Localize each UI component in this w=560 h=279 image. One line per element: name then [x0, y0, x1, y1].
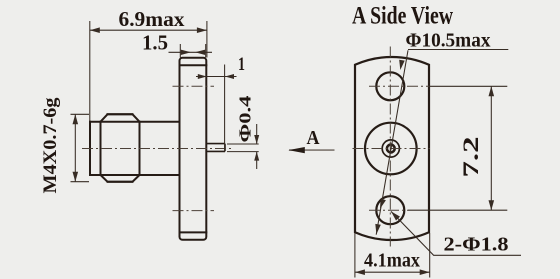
- centerline of connector axis: [82, 86, 232, 210]
- svg-text:4.1max: 4.1max: [364, 250, 420, 272]
- svg-text:A: A: [307, 127, 320, 149]
- M4 thread dimension line: [74, 114, 76, 181]
- svg-text:A Side View: A Side View: [352, 3, 453, 30]
- 6.9max arrows: [90, 27, 100, 33]
- top mounting hole: [376, 72, 404, 100]
- svg-text:Φ10.5max: Φ10.5max: [406, 30, 491, 52]
- mounting hole centerlines crossing side-view flange: [173, 85, 215, 87]
- svg-text:1.5: 1.5: [142, 30, 168, 54]
- M4 dim arrows: [73, 114, 79, 124]
- bottom mounting hole: [376, 196, 404, 224]
- 4.1max arrows: [355, 269, 365, 275]
- center pin (side view): [206, 144, 225, 152]
- dia10.5 arrows: [399, 60, 405, 70]
- section A viewing arrow: [289, 149, 335, 151]
- svg-text:M4X0.7-6g: M4X0.7-6g: [40, 97, 61, 194]
- center connector circles: [365, 123, 417, 175]
- svg-text:6.9max: 6.9max: [119, 7, 186, 31]
- dia10.5max leader line: [376, 50, 408, 234]
- svg-text:Φ0.4: Φ0.4: [236, 95, 255, 143]
- dia 0.4 pin dimension: [227, 144, 259, 152]
- 2-dia1.8 leader line: [391, 211, 521, 255]
- svg-text:7.2: 7.2: [458, 137, 483, 178]
- hex/threaded section outline: [101, 114, 140, 181]
- svg-text:2-Φ1.8: 2-Φ1.8: [444, 234, 509, 256]
- flange (side view): [180, 58, 207, 240]
- 1 dim arrows: [198, 74, 207, 79]
- 1 (pin length) dimension: [196, 76, 237, 78]
- 7.2 dimension line: [490, 86, 492, 210]
- svg-text:1: 1: [238, 54, 245, 75]
- 2-dia1.8 arrow: [391, 211, 400, 220]
- 7.2 dim extension lines: [429, 85, 507, 87]
- connector body left band (thread end): [90, 122, 101, 175]
- 6.9max dimension: [89, 21, 91, 121]
- 1.5 arrows (reversed inside style): [181, 50, 191, 55]
- A side view flange outline: [355, 57, 429, 240]
- dia0.4 arrows: [254, 135, 259, 144]
- 1.5 dimension: [179, 44, 181, 58]
- 7.2 arrows: [489, 86, 495, 96]
- centerlines of A view: [353, 47, 431, 247]
- 4.1max dimension: [354, 233, 356, 278]
- connector body silhouette horizontals: [90, 122, 180, 175]
